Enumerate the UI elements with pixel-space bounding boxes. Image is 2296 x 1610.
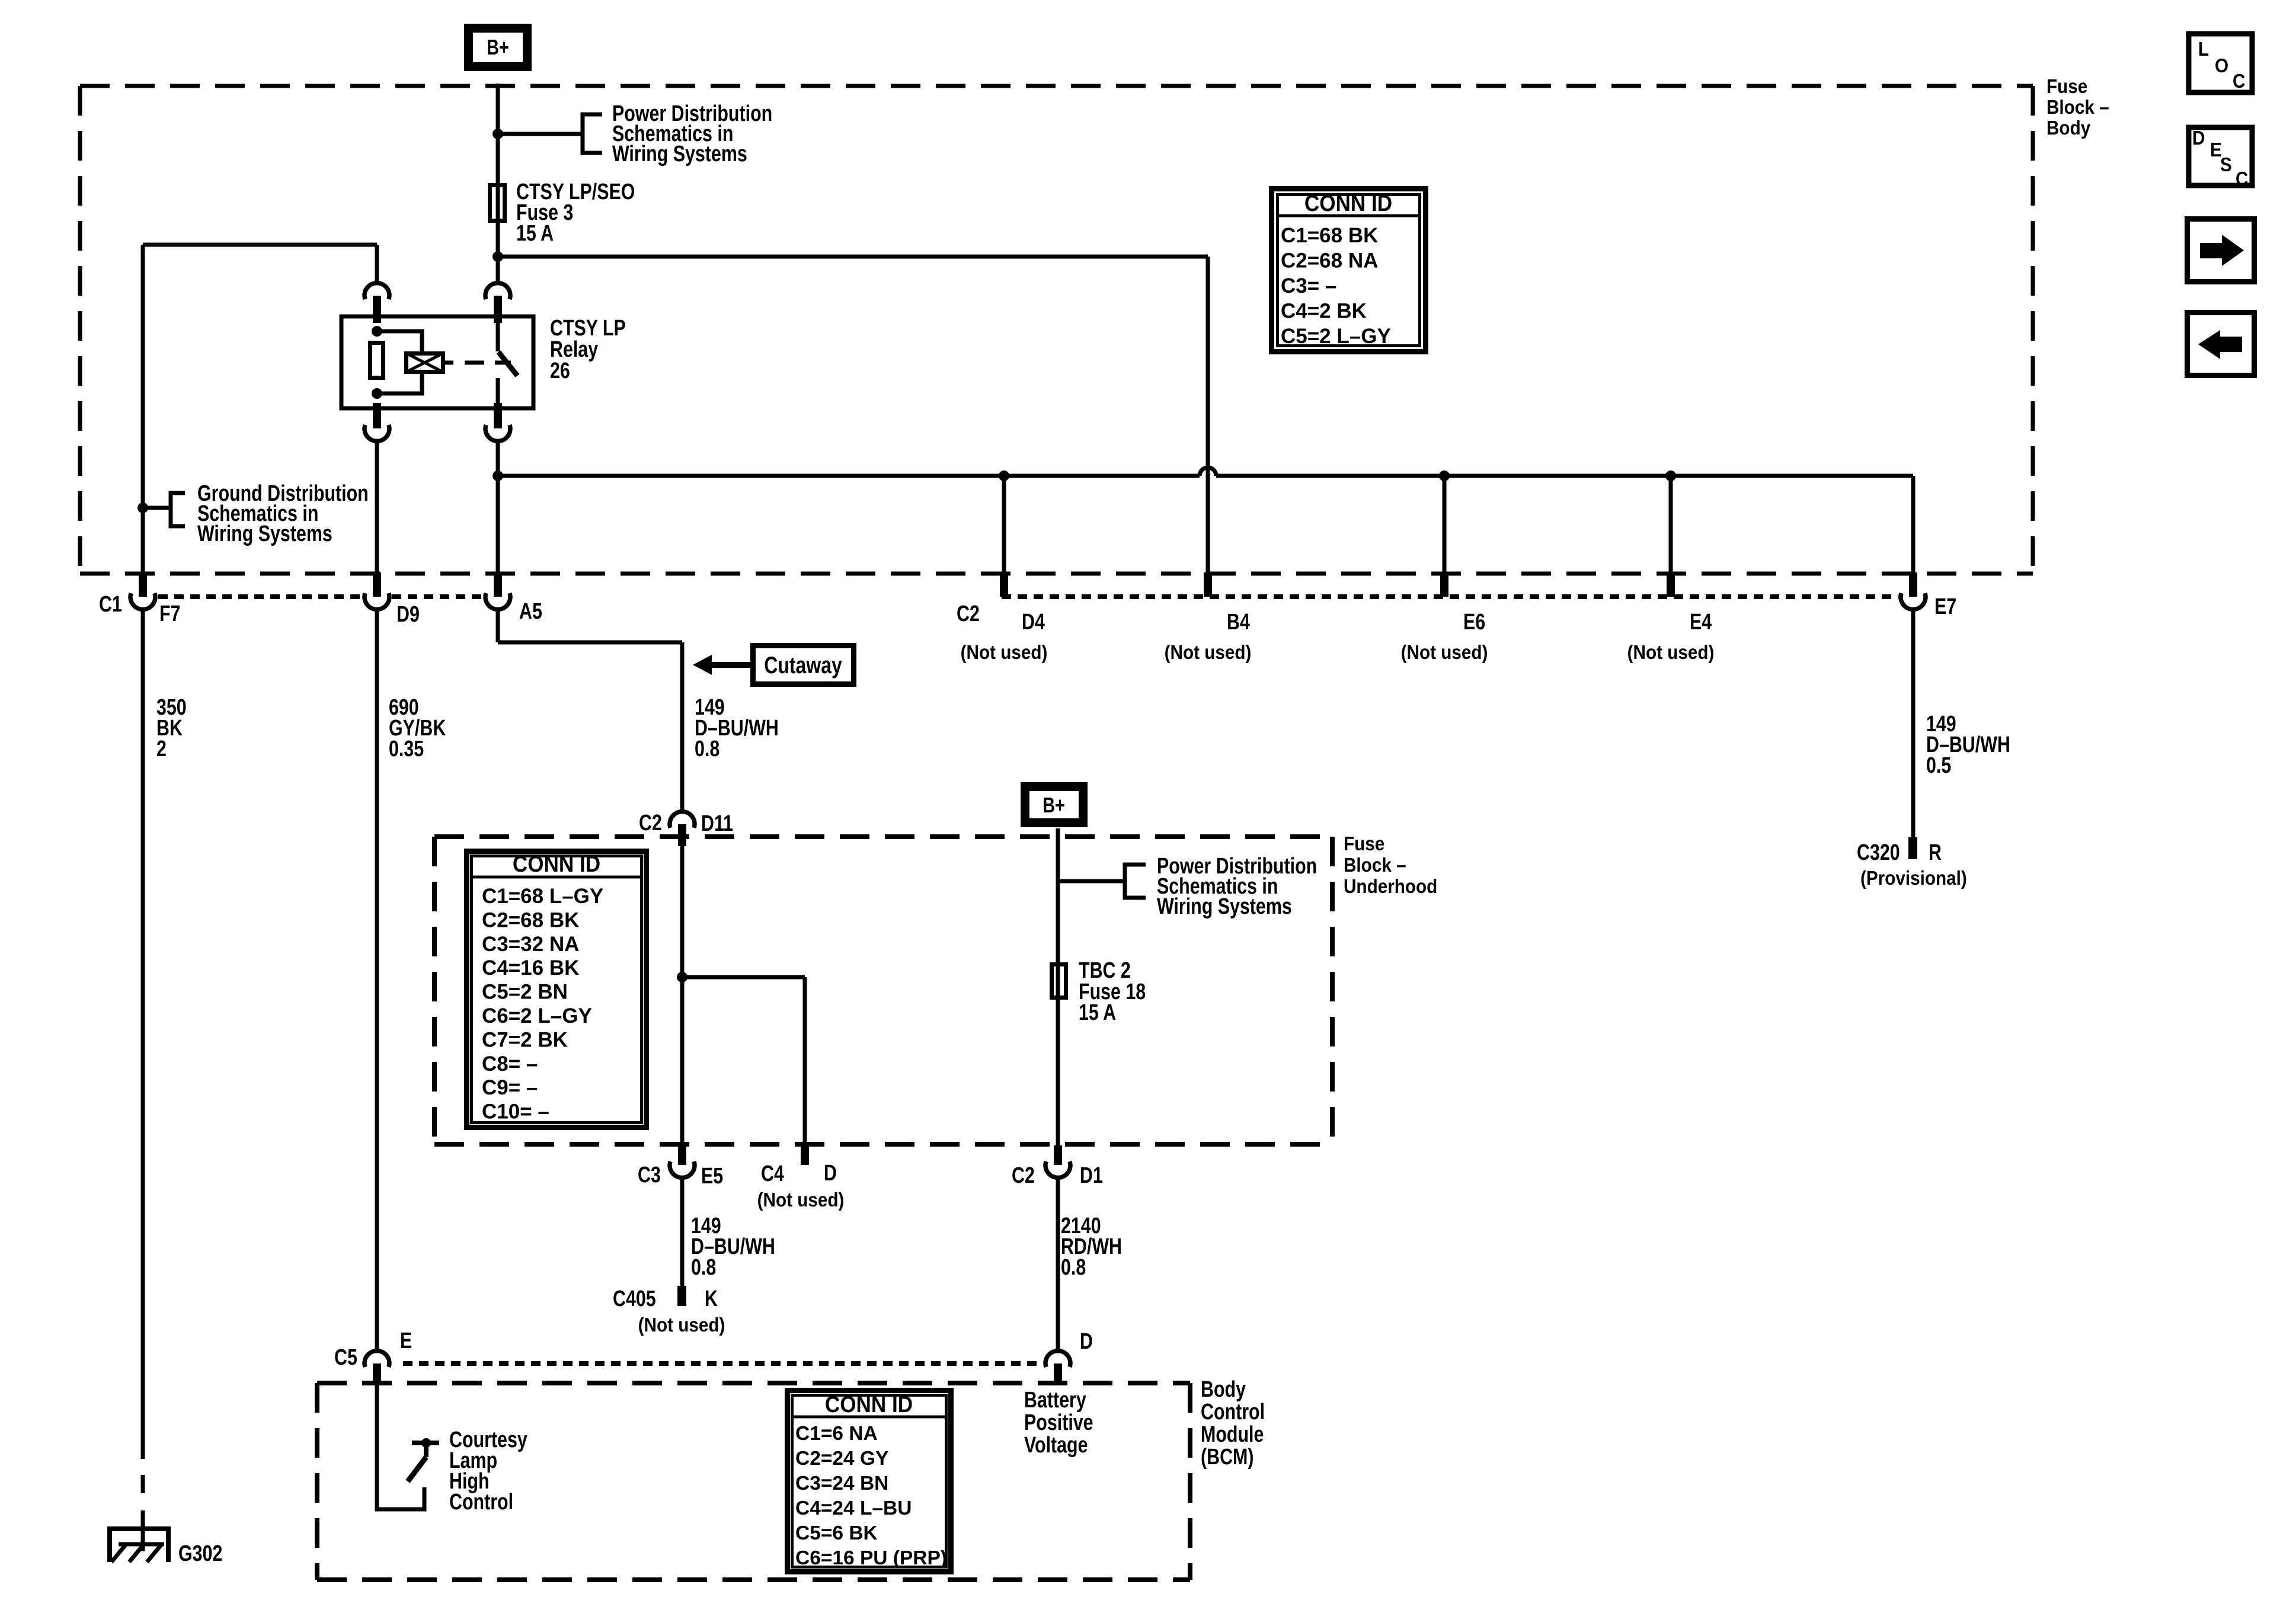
svg-text:(Not used): (Not used) <box>757 1189 845 1211</box>
svg-text:B4: B4 <box>1227 610 1250 635</box>
svg-text:D9: D9 <box>396 602 420 627</box>
svg-text:Wiring Systems: Wiring Systems <box>1157 894 1292 919</box>
svg-text:C5: C5 <box>334 1345 357 1370</box>
svg-text:K: K <box>705 1286 718 1311</box>
svg-text:Underhood: Underhood <box>1344 876 1437 898</box>
svg-text:C9= –: C9= – <box>482 1076 538 1099</box>
svg-text:C4: C4 <box>761 1161 784 1186</box>
svg-text:0.5: 0.5 <box>1926 753 1951 778</box>
svg-text:15 A: 15 A <box>516 221 554 246</box>
svg-text:E4: E4 <box>1690 610 1712 635</box>
svg-text:Positive: Positive <box>1024 1410 1093 1435</box>
svg-text:Wiring Systems: Wiring Systems <box>612 142 747 167</box>
svg-text:0.8: 0.8 <box>695 737 720 761</box>
svg-text:C7=2 BK: C7=2 BK <box>482 1028 568 1051</box>
svg-text:(Not used): (Not used) <box>1165 642 1252 664</box>
svg-text:0.8: 0.8 <box>691 1255 716 1280</box>
svg-text:CONN ID: CONN ID <box>513 850 600 876</box>
svg-text:(Not used): (Not used) <box>961 642 1048 664</box>
svg-text:G302: G302 <box>178 1541 222 1566</box>
svg-text:C3=32 NA: C3=32 NA <box>482 933 579 956</box>
svg-text:C2: C2 <box>639 811 662 836</box>
svg-text:Body: Body <box>1201 1377 1246 1402</box>
svg-text:CONN ID: CONN ID <box>825 1391 913 1417</box>
svg-text:C8= –: C8= – <box>482 1052 538 1076</box>
svg-text:C2: C2 <box>1012 1163 1035 1188</box>
svg-text:C6=16 PU (PRP): C6=16 PU (PRP) <box>795 1547 947 1569</box>
svg-text:C10= –: C10= – <box>482 1100 549 1124</box>
svg-text:Fuse: Fuse <box>2046 76 2087 98</box>
svg-text:S: S <box>2220 154 2232 176</box>
svg-text:Cutaway: Cutaway <box>764 652 842 678</box>
svg-text:(Not used): (Not used) <box>1627 642 1715 664</box>
svg-text:26: 26 <box>550 359 570 383</box>
svg-text:Fuse: Fuse <box>1344 833 1384 855</box>
svg-text:C6=2 L–GY: C6=2 L–GY <box>482 1004 592 1028</box>
svg-text:Body: Body <box>2046 117 2091 139</box>
svg-text:C405: C405 <box>613 1286 656 1311</box>
svg-text:C4=16 BK: C4=16 BK <box>482 956 579 980</box>
svg-text:C3= –: C3= – <box>1281 274 1336 297</box>
svg-text:(Not used): (Not used) <box>638 1314 725 1336</box>
svg-text:C1=68 L–GY: C1=68 L–GY <box>482 885 603 908</box>
svg-text:C5=2 BN: C5=2 BN <box>482 981 568 1004</box>
svg-text:C5=2 L–GY: C5=2 L–GY <box>1281 325 1391 348</box>
svg-text:C: C <box>2236 168 2248 190</box>
svg-text:F7: F7 <box>159 601 180 626</box>
svg-text:D4: D4 <box>1022 610 1045 635</box>
svg-text:C320: C320 <box>1857 840 1900 865</box>
svg-text:Block –: Block – <box>2046 97 2109 119</box>
svg-text:0.8: 0.8 <box>1061 1255 1086 1280</box>
svg-text:(Not used): (Not used) <box>1401 642 1488 664</box>
svg-text:0.35: 0.35 <box>389 737 424 761</box>
svg-text:E7: E7 <box>1934 594 1956 619</box>
svg-text:E6: E6 <box>1463 610 1485 635</box>
svg-text:D11: D11 <box>701 811 733 836</box>
svg-text:C3=24 BN: C3=24 BN <box>795 1473 888 1494</box>
svg-text:Voltage: Voltage <box>1024 1433 1088 1458</box>
svg-text:Block –: Block – <box>1344 854 1406 876</box>
svg-text:15 A: 15 A <box>1079 1000 1116 1025</box>
svg-text:C1=6 NA: C1=6 NA <box>795 1423 878 1445</box>
svg-text:CONN ID: CONN ID <box>1304 190 1392 216</box>
svg-text:O: O <box>2215 55 2228 77</box>
svg-text:C2=24 GY: C2=24 GY <box>795 1448 888 1470</box>
svg-text:Wiring Systems: Wiring Systems <box>197 521 332 546</box>
svg-text:C2=68 BK: C2=68 BK <box>482 908 579 932</box>
svg-text:D1: D1 <box>1080 1163 1103 1188</box>
svg-text:C3: C3 <box>638 1163 661 1188</box>
svg-text:E5: E5 <box>701 1164 723 1189</box>
svg-text:C4=2 BK: C4=2 BK <box>1281 300 1367 323</box>
svg-text:2: 2 <box>156 737 167 761</box>
svg-text:D: D <box>2192 127 2205 149</box>
svg-text:B+: B+ <box>1043 793 1065 817</box>
svg-text:Battery: Battery <box>1024 1388 1086 1413</box>
svg-text:Control: Control <box>449 1490 513 1515</box>
svg-text:Module: Module <box>1201 1422 1264 1447</box>
svg-text:C: C <box>2233 71 2245 92</box>
svg-text:C4=24 L–BU: C4=24 L–BU <box>795 1497 912 1519</box>
svg-text:(BCM): (BCM) <box>1201 1445 1253 1470</box>
svg-text:C1: C1 <box>99 592 122 617</box>
svg-text:A5: A5 <box>519 599 542 624</box>
svg-text:C2: C2 <box>957 601 980 626</box>
svg-text:C2=68 NA: C2=68 NA <box>1281 249 1378 273</box>
svg-text:R: R <box>1929 840 1942 865</box>
svg-text:(Provisional): (Provisional) <box>1860 868 1967 889</box>
svg-text:E: E <box>400 1329 412 1353</box>
svg-text:B+: B+ <box>487 35 509 59</box>
svg-text:D: D <box>1080 1329 1093 1354</box>
svg-text:L: L <box>2198 39 2209 60</box>
svg-text:C5=6 BK: C5=6 BK <box>795 1522 878 1544</box>
svg-text:Control: Control <box>1201 1400 1265 1425</box>
svg-text:C1=68 BK: C1=68 BK <box>1281 224 1378 247</box>
svg-text:D: D <box>824 1161 837 1186</box>
